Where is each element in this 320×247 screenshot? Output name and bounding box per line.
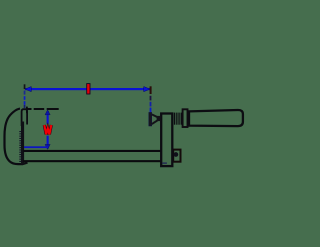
serration teeth — [19, 131, 21, 162]
screw spindle neck — [157, 116, 161, 121]
extension line right (dashed) — [150, 86, 152, 112]
label l (red) — [87, 84, 90, 94]
collar — [183, 109, 188, 127]
fixed jaw serrated face bar — [21, 122, 24, 165]
rail top edge — [23, 150, 161, 152]
rail end cap — [173, 150, 180, 162]
extension line left (dashed) — [24, 84, 26, 108]
screw cone taper — [152, 114, 158, 117]
screw threads — [174, 113, 182, 125]
fixed jaw pad box — [22, 109, 28, 126]
fixed jaw outer contour — [5, 109, 28, 165]
screw swivel pad — [149, 112, 152, 126]
rail bottom hidden hint inside arm — [162, 163, 167, 164]
rail bottom edge — [23, 160, 161, 162]
handle — [189, 110, 243, 126]
dimension line l (horizontal blue) — [25, 87, 150, 92]
dimension line w (vertical blue) — [22, 107, 61, 150]
rivet on rail end — [174, 152, 179, 157]
label w (red) — [43, 124, 52, 136]
sliding arm body — [161, 114, 172, 167]
